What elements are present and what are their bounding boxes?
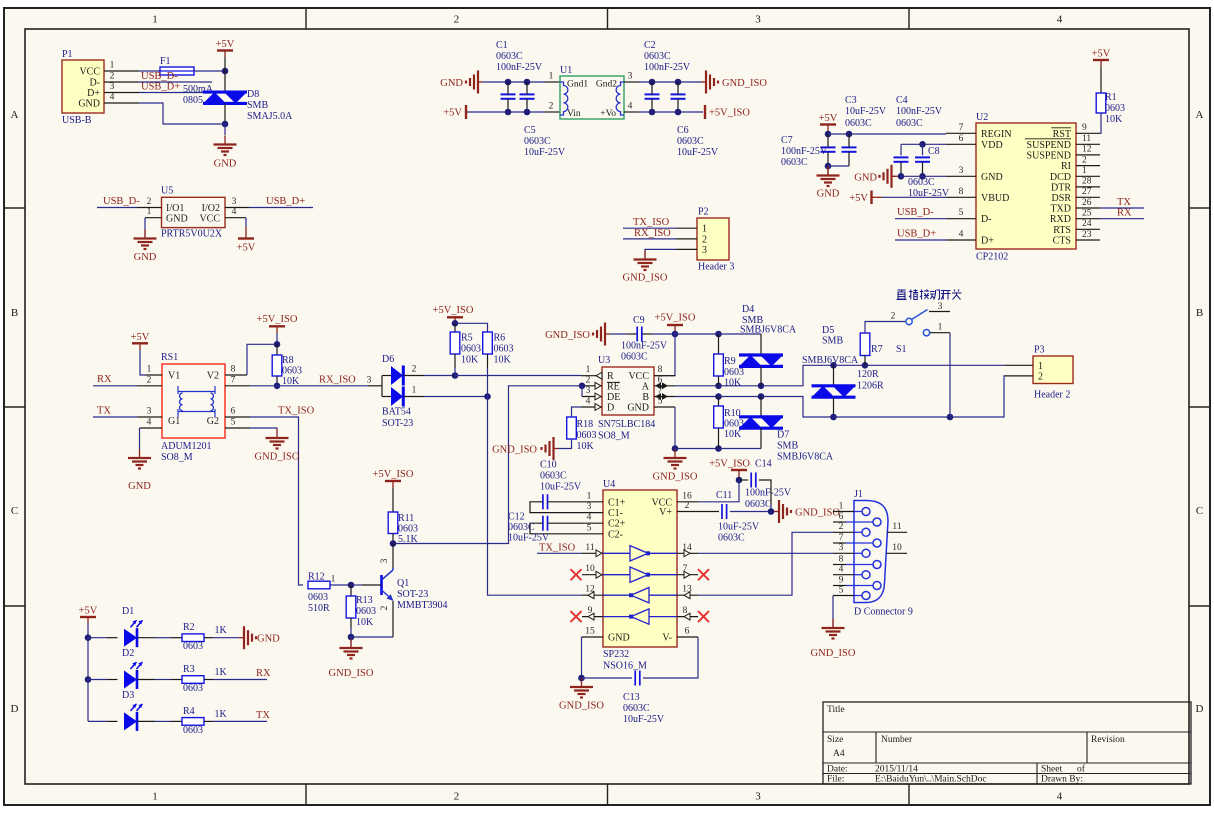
svg-text:4: 4 <box>147 418 152 428</box>
wire <box>87 680 89 722</box>
svg-text:SO8_M: SO8_M <box>598 431 630 442</box>
svg-text:1: 1 <box>110 61 115 71</box>
junction <box>919 173 926 180</box>
svg-text:Q1: Q1 <box>397 578 409 589</box>
svg-text:15: 15 <box>585 627 595 637</box>
no-connect X pin8 <box>698 611 709 622</box>
svg-text:100nF-25V: 100nF-25V <box>781 146 828 157</box>
C11 labels <box>716 490 760 544</box>
wire <box>467 111 545 113</box>
resistor R7 <box>860 333 870 356</box>
svg-text:7: 7 <box>839 533 844 543</box>
J1 pin 9 <box>833 575 881 589</box>
wire <box>404 375 425 377</box>
capacitor C3 plates <box>842 147 857 151</box>
wire <box>828 133 946 135</box>
power ground GND_ISO (sideways) <box>545 323 610 346</box>
pin 4 stub <box>624 102 639 113</box>
svg-text:Gnd1: Gnd1 <box>567 80 588 90</box>
junction <box>672 445 679 452</box>
svg-text:8: 8 <box>658 365 663 375</box>
svg-text:V-: V- <box>662 633 672 644</box>
net label USB_D- <box>141 71 178 82</box>
capacitor C7 plates <box>821 147 836 151</box>
svg-text:3: 3 <box>367 375 372 385</box>
svg-text:+5V: +5V <box>131 332 150 343</box>
ground GND_ISO <box>623 251 668 284</box>
U3 pin 3 <box>582 386 602 400</box>
svg-text:100nF-25V: 100nF-25V <box>745 488 792 499</box>
U4 pin 2 <box>677 501 698 512</box>
svg-text:A: A <box>1196 109 1204 121</box>
wire <box>139 103 225 124</box>
R2 labels <box>183 622 228 652</box>
wire <box>1100 207 1144 209</box>
P3 pin 1 <box>1005 361 1043 372</box>
wire <box>139 428 141 449</box>
wire <box>760 334 762 355</box>
DC-DC module U1 <box>560 65 624 119</box>
svg-text:4: 4 <box>586 397 591 407</box>
svg-text:10uF-25V: 10uF-25V <box>524 147 566 158</box>
wire <box>404 396 425 398</box>
capacitor C12 <box>543 516 548 531</box>
svg-text:DTR: DTR <box>1051 182 1071 193</box>
resistor R13 <box>346 596 356 618</box>
junction <box>947 414 954 421</box>
svg-text:6: 6 <box>959 134 964 144</box>
J1 pin 6 <box>833 512 881 526</box>
wire <box>882 196 946 198</box>
svg-text:VCC: VCC <box>628 371 649 382</box>
R13 labels <box>356 595 376 628</box>
C9 labels <box>621 315 668 363</box>
C12 wrap wire <box>530 523 582 534</box>
IC U4 SP232 <box>603 479 677 672</box>
junction <box>484 393 491 400</box>
svg-text:RXD: RXD <box>1050 214 1071 225</box>
wire <box>865 322 906 334</box>
svg-text:3: 3 <box>839 543 844 553</box>
svg-text:0603C: 0603C <box>745 499 772 510</box>
svg-text:P2: P2 <box>698 207 709 218</box>
capacitor C13 <box>635 671 640 686</box>
svg-text:TX: TX <box>1117 197 1131 208</box>
J1 pin 2 <box>833 522 870 536</box>
svg-text:1206R: 1206R <box>857 381 884 392</box>
svg-text:1: 1 <box>549 72 554 82</box>
svg-text:1: 1 <box>702 224 707 235</box>
svg-text:0603: 0603 <box>494 344 514 355</box>
net label TX_ISO <box>633 217 670 228</box>
svg-text:1: 1 <box>839 501 844 511</box>
C12 labels <box>508 512 550 544</box>
svg-text:1: 1 <box>938 323 943 333</box>
svg-text:GND_ISO: GND_ISO <box>623 273 668 284</box>
capacitor C4 plates <box>894 157 909 161</box>
wire <box>224 104 226 125</box>
svg-text:2: 2 <box>454 791 460 803</box>
svg-text:C10: C10 <box>540 460 557 471</box>
svg-text:Date:: Date: <box>827 764 848 774</box>
P2 pin 3 <box>676 245 707 256</box>
svg-text:27: 27 <box>1082 187 1092 197</box>
U2 pin 1 DCD <box>1050 166 1100 183</box>
svg-text:10K: 10K <box>724 429 742 440</box>
svg-text:3: 3 <box>147 407 152 417</box>
svg-text:D-: D- <box>89 78 100 89</box>
svg-text:GND: GND <box>627 403 649 414</box>
connector P3 Header2 <box>1033 345 1073 401</box>
U4 pin 6 <box>677 627 698 638</box>
J1 pin 3 <box>833 543 870 557</box>
svg-text:U3: U3 <box>598 355 610 366</box>
junction <box>825 131 832 138</box>
svg-text:10K: 10K <box>461 355 479 366</box>
wire <box>138 637 156 639</box>
J1 pin 11 <box>887 522 907 533</box>
wire <box>392 534 394 544</box>
U3 pin 2 <box>582 375 602 389</box>
connector J1 D Connector 9 <box>854 489 913 618</box>
fuse F1 <box>160 56 194 75</box>
RS1 pin 4 <box>140 418 163 429</box>
svg-text:C1: C1 <box>496 40 508 51</box>
capacitor C11 <box>722 504 727 519</box>
wire <box>675 385 719 387</box>
power port +5V_ISO <box>257 314 298 326</box>
svg-text:C: C <box>11 505 18 517</box>
resistor R10 <box>714 406 724 428</box>
svg-text:GND_ISO: GND_ISO <box>255 452 300 463</box>
wire <box>213 720 267 722</box>
svg-text:4: 4 <box>110 93 115 103</box>
svg-text:ADUM1201: ADUM1201 <box>161 441 212 452</box>
RS1 pin 6 <box>225 407 250 418</box>
wire <box>87 617 89 638</box>
svg-text:0603C: 0603C <box>781 157 808 168</box>
junction <box>675 109 682 116</box>
svg-text:16: 16 <box>682 491 692 501</box>
svg-text:U5: U5 <box>161 186 173 197</box>
U4 pin 5 <box>582 523 603 534</box>
wire <box>155 679 171 681</box>
wire <box>675 396 719 398</box>
svg-text:P3: P3 <box>1034 345 1045 356</box>
capacitor C2 plates <box>645 94 660 98</box>
power port +5V (inverted) <box>237 239 256 254</box>
junction <box>768 508 775 515</box>
J1 pin 10 <box>887 543 908 554</box>
ground GND_ISO <box>255 429 300 463</box>
pin 1 <box>104 61 139 72</box>
capacitor C10 <box>543 494 548 509</box>
wire <box>827 166 829 176</box>
RS1 internal transformer <box>178 386 215 417</box>
power ground GND (sideways) <box>440 71 483 94</box>
svg-text:R3: R3 <box>183 664 195 675</box>
U2 pin 6 VDD <box>946 134 1003 151</box>
svg-text:RS1: RS1 <box>161 352 178 363</box>
svg-text:8: 8 <box>839 554 844 564</box>
wire <box>107 679 118 681</box>
svg-text:+5V: +5V <box>237 243 256 254</box>
R7 labels <box>857 344 884 392</box>
wire <box>171 679 182 681</box>
resistor R4 <box>182 718 204 726</box>
wire <box>718 334 720 354</box>
svg-text:USB_D-: USB_D- <box>103 196 140 207</box>
svg-text:RX_ISO: RX_ISO <box>319 375 356 386</box>
svg-text:TX_ISO: TX_ISO <box>539 543 576 554</box>
R9 labels <box>724 356 744 389</box>
svg-text:SOT-23: SOT-23 <box>397 589 428 600</box>
pin 2 <box>137 197 162 208</box>
junction <box>758 383 765 390</box>
wire <box>139 70 160 72</box>
U1 left winding <box>560 82 568 115</box>
C4/C8 bottom stems <box>901 162 923 177</box>
svg-text:GND_ISO: GND_ISO <box>653 472 698 483</box>
junction <box>919 141 926 148</box>
isolator RS1 ADUM1201 <box>161 352 225 463</box>
svg-text:+5V_ISO: +5V_ISO <box>709 108 750 119</box>
svg-text:0603C: 0603C <box>896 118 923 129</box>
wire U4 pin13 to J1 pin2 <box>698 532 833 595</box>
svg-text:510R: 510R <box>308 603 330 614</box>
svg-text:VCC: VCC <box>79 67 100 78</box>
wire <box>424 375 455 377</box>
capacitor C6 plates <box>671 94 686 98</box>
junction <box>505 109 512 116</box>
svg-text:+Vo: +Vo <box>600 109 616 119</box>
svg-text:A: A <box>642 382 650 393</box>
svg-text:D+: D+ <box>87 88 100 99</box>
svg-text:TX: TX <box>97 405 111 416</box>
svg-text:Number: Number <box>881 735 913 745</box>
svg-text:10: 10 <box>892 543 902 553</box>
svg-text:7: 7 <box>959 123 964 133</box>
svg-text:9: 9 <box>1082 123 1087 133</box>
svg-text:VDD: VDD <box>981 140 1003 151</box>
wire <box>894 175 902 177</box>
svg-text:10K: 10K <box>724 378 742 389</box>
connector P1 <box>62 49 104 126</box>
svg-text:0603: 0603 <box>1105 103 1125 114</box>
svg-text:24: 24 <box>1082 219 1092 229</box>
svg-text:3: 3 <box>702 245 707 256</box>
power ground GND (sideways) <box>239 626 280 649</box>
svg-text:D3: D3 <box>122 690 134 701</box>
cap C6 stems <box>677 82 679 112</box>
svg-text:S1: S1 <box>896 344 907 355</box>
svg-text:D Connector 9: D Connector 9 <box>854 607 913 618</box>
ground GND <box>817 167 840 200</box>
pin 2 <box>104 72 139 83</box>
wire <box>698 511 719 513</box>
svg-text:0603C: 0603C <box>718 533 745 544</box>
svg-text:0603C: 0603C <box>623 703 650 714</box>
svg-text:C2+: C2+ <box>608 519 626 530</box>
wire <box>537 552 582 554</box>
svg-text:3: 3 <box>755 14 761 26</box>
C3 value label <box>845 95 887 129</box>
net label USB_D- <box>103 196 140 207</box>
ground GND_ISO <box>559 678 604 712</box>
wire <box>350 637 352 647</box>
svg-text:PRTR5V0U2X: PRTR5V0U2X <box>161 229 223 240</box>
U4 pin 8 <box>677 606 698 620</box>
U4 buffer T2 <box>603 567 677 582</box>
TVS diode D7 <box>739 417 783 428</box>
ground GND_ISO <box>811 619 856 659</box>
power ground GND (sideways) <box>854 165 896 188</box>
svg-text:U4: U4 <box>603 479 615 490</box>
wire <box>455 375 581 377</box>
svg-text:R2: R2 <box>183 622 195 633</box>
LED D1 <box>124 620 143 647</box>
wire <box>454 323 456 332</box>
wire <box>760 397 762 417</box>
junction <box>274 341 281 348</box>
D4 labels <box>740 304 797 336</box>
R3 labels <box>183 664 228 694</box>
net label TX <box>256 710 270 721</box>
wire <box>675 333 719 335</box>
svg-text:SUSPEND: SUSPEND <box>1027 140 1071 151</box>
svg-text:3: 3 <box>587 502 592 512</box>
R5 labels <box>461 333 481 366</box>
junction <box>825 163 832 170</box>
U2 pin 8 VBUD <box>946 187 1009 204</box>
svg-text:2: 2 <box>110 72 115 82</box>
switch S1 <box>891 302 943 355</box>
svg-text:BAT54: BAT54 <box>382 407 411 418</box>
C10 labels <box>540 460 582 493</box>
RS1 pin 3 <box>137 407 162 418</box>
wire <box>139 81 212 83</box>
junction <box>390 540 397 547</box>
svg-text:1: 1 <box>147 365 152 375</box>
J1 pin 8 <box>833 554 881 568</box>
svg-text:2: 2 <box>702 234 707 245</box>
wire <box>250 417 303 585</box>
svg-text:12: 12 <box>1082 145 1092 155</box>
U2 pin 9 RST <box>1051 123 1100 140</box>
svg-text:0603C: 0603C <box>524 136 551 147</box>
svg-text:0603C: 0603C <box>845 118 872 129</box>
resistor R3 <box>182 676 204 684</box>
svg-text:C3: C3 <box>845 95 857 106</box>
net label RX_ISO <box>319 375 356 386</box>
U4 pin 9 <box>582 606 603 620</box>
svg-text:3: 3 <box>938 302 943 312</box>
svg-text:100nF-25V: 100nF-25V <box>496 62 543 73</box>
svg-text:USB-B: USB-B <box>62 115 92 126</box>
diode D6 BAT54 <box>382 376 391 397</box>
wire <box>639 111 703 113</box>
wire <box>581 637 583 678</box>
svg-text:SMBJ6V8CA: SMBJ6V8CA <box>777 452 834 463</box>
svg-text:6: 6 <box>685 627 690 637</box>
resistor R5 <box>450 332 460 354</box>
capacitor C9 <box>637 327 642 342</box>
svg-text:RST: RST <box>1053 129 1071 140</box>
R10 labels <box>724 408 744 440</box>
wire <box>950 376 1005 417</box>
wire <box>139 92 212 94</box>
wire <box>719 385 762 387</box>
svg-text:SMB: SMB <box>777 441 798 452</box>
wire U4 pin14 to J1 pin3 <box>698 552 833 554</box>
svg-text:4: 4 <box>628 102 633 112</box>
svg-text:D4: D4 <box>742 304 754 315</box>
svg-text:+5V: +5V <box>216 39 235 50</box>
pin 2 stub <box>545 102 560 113</box>
wire <box>368 385 382 387</box>
caption: toggle switch (Chinese) <box>897 289 962 299</box>
wire <box>1100 113 1101 133</box>
junction <box>898 173 905 180</box>
resistor R6 <box>483 332 493 354</box>
junction <box>452 372 459 379</box>
resistor R9 <box>714 354 724 376</box>
svg-text:R13: R13 <box>356 595 373 606</box>
wire <box>739 479 748 481</box>
wire D6-1 / R6 down to U4 pin 12 <box>488 397 583 596</box>
C3 stems <box>848 134 850 166</box>
diode D6 lower half <box>391 387 403 407</box>
capacitor C1 plates <box>501 94 516 98</box>
C7 value label <box>781 135 828 168</box>
C14 labels <box>745 488 792 511</box>
wire <box>895 218 946 220</box>
diode D6 upper half <box>391 366 403 386</box>
svg-text:GND_ISO: GND_ISO <box>492 445 537 456</box>
TVS diode D8 <box>224 71 226 92</box>
wire <box>645 249 676 258</box>
junction <box>736 477 743 484</box>
cap C1 stems <box>507 82 509 112</box>
junction <box>649 109 656 116</box>
power port +5V <box>79 606 98 618</box>
wire <box>833 365 835 386</box>
C10 wrap wire <box>530 502 582 513</box>
wire <box>276 326 278 344</box>
wire <box>247 344 277 375</box>
U2 pin 23 CTS <box>1053 230 1100 247</box>
svg-text:1: 1 <box>1082 166 1087 176</box>
svg-text:2: 2 <box>1082 155 1087 165</box>
wire <box>572 407 582 417</box>
svg-text:Revision: Revision <box>1091 735 1125 745</box>
RS1 pin 8 <box>225 365 247 376</box>
svg-text:B: B <box>1196 307 1203 319</box>
wire <box>760 428 762 448</box>
svg-text:Drawn By:: Drawn By: <box>1041 774 1083 784</box>
wire <box>581 386 583 397</box>
wire <box>738 470 740 480</box>
svg-text:DSR: DSR <box>1052 193 1072 204</box>
IC U2 CP2102 <box>976 112 1076 263</box>
junction <box>715 331 722 338</box>
svg-text:TXD: TXD <box>1050 204 1071 215</box>
svg-text:+5V: +5V <box>849 193 868 204</box>
svg-text:+5V_ISO: +5V_ISO <box>655 313 696 324</box>
no-connect X pin9 <box>571 611 582 622</box>
svg-text:28: 28 <box>1082 177 1092 187</box>
ground GND_ISO <box>329 639 374 679</box>
